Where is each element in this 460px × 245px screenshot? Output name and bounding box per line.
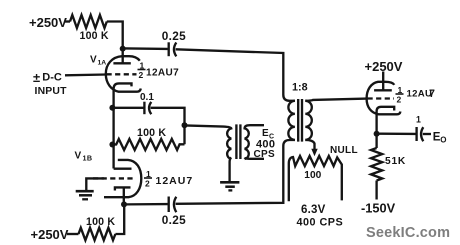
resistor R2 100K (feedback) [112,139,184,150]
svg-text:6.3V: 6.3V [301,204,326,216]
svg-text:0.1: 0.1 [140,92,154,103]
svg-text:D-C: D-C [42,72,62,84]
wire C1 to T1 primary top [176,49,295,101]
svg-text:-150V: -150V [361,201,396,216]
svg-text:100: 100 [304,170,321,181]
transformer T2 (EC excitation) left winding with leads [185,125,232,181]
tube V1A envelope [106,56,141,91]
svg-text:NULL: NULL [330,145,358,156]
svg-text:100 K: 100 K [86,216,115,228]
svg-text:SeekIC.com: SeekIC.com [366,225,450,241]
transformer T1 core [298,99,302,142]
wire R3 to V1B cathode node [115,204,124,234]
wire V1B grid to ground [86,178,104,190]
wiper arrow (null adjust) [311,149,317,156]
transformer T2 core [236,124,240,159]
wire V1A cathode node down to V1B plate [112,108,114,169]
wire C4 to EO terminal [423,133,431,135]
wire +250V to V2 plate [382,72,384,91]
transformer T2 right winding (source side) with leads [245,125,264,159]
svg-text:2: 2 [145,179,150,189]
tube V1B cathode [115,187,131,204]
tube V2 envelope [367,82,401,115]
junction dot: plate node of V1A [120,46,126,52]
input terminal ±D-C INPUT [33,70,67,97]
capacitor C4 1 (output coupling) [417,127,424,141]
potentiometer R4 100 (NULL) [289,156,342,201]
svg-text:100 K: 100 K [137,127,166,139]
tube V2 cathode [377,107,395,134]
svg-text:12AU7: 12AU7 [156,175,194,187]
capacitor C3 0.25 (coupling V1B to T1 primary bottom) [169,197,177,213]
capacitor C2 0.1 (feedback) [144,102,151,115]
resistor R1 100K (V1A plate load) [70,15,107,28]
ground (V1B grid) [76,191,94,199]
transformer T1 secondary winding [305,101,312,140]
svg-text:±: ± [33,70,40,85]
tube V1B grid (dashed) [93,177,135,179]
wire +250V to R3 [67,233,79,235]
svg-text:O: O [440,136,446,145]
svg-text:100 K: 100 K [80,30,109,42]
junction dot: EC tap node [182,122,188,128]
ground (T2 left winding) [220,182,239,190]
resistor R3 100K (V1B cathode load) [79,228,116,240]
label 1/2 12AU7 (V1A) [139,61,180,81]
svg-text:+250V: +250V [29,15,67,30]
svg-text:INPUT: INPUT [35,86,68,97]
label EC 400 CPS (excitation source) [254,128,276,160]
wire R1 to V1A plate node [107,22,123,49]
svg-text:1B: 1B [83,154,93,163]
svg-text:1:8: 1:8 [292,82,308,94]
svg-text:E: E [262,128,269,139]
wire C3 to T1 primary bottom [176,140,295,204]
transformer T1 1:8 primary winding [288,101,295,140]
wire plate node to C1 [123,47,168,50]
wire T1 secondary top to V2 grid [305,99,367,101]
label 1/2 12AU7 (V1B) [145,169,193,189]
wire output node to C4 [377,133,416,136]
tube V2 plate bar [374,89,392,91]
tube V1B plate bar [114,168,132,170]
tube V1A plate (lead + bar) [113,48,130,63]
svg-text:12AU7: 12AU7 [146,68,179,79]
svg-text:1A: 1A [98,60,107,67]
junction dot: 0.1 node (V1A cathode) [109,105,115,111]
wire node to C2 [112,107,143,109]
wire C2 to EC tap node and down to R2 [151,108,185,145]
tube V2 grid (dashed) [368,97,395,99]
junction dot: feedback node [109,142,115,148]
source 6.3V 400 CPS (heater excitation) [297,204,344,229]
resistor R5 51K [371,148,382,181]
svg-text:2: 2 [397,95,402,105]
junction dot: output node (V2 cathode) [374,131,380,137]
label 1/2 12AU7 (V2) [397,85,436,105]
svg-text:0.25: 0.25 [162,29,186,43]
wire R5 to -150V [375,181,377,200]
svg-text:7: 7 [429,88,435,100]
capacitor C1 0.25 (coupling V1A to T1 primary top) [169,42,177,56]
tube V1B envelope [104,160,141,197]
svg-text:0.25: 0.25 [162,213,186,227]
wire T1 secondary bottom to null wiper [305,140,314,150]
tube V1A cathode [114,83,132,107]
svg-text:400 CPS: 400 CPS [297,217,344,229]
wire output node to R5 [375,134,377,148]
wire cathode node to C3 [124,203,168,206]
wire input to V1A grid [65,73,107,76]
svg-text:+250V: +250V [31,227,69,242]
tube V1A grid (dashed) [107,73,137,75]
svg-text:CPS: CPS [254,149,275,160]
wire +250V to R1 [65,20,70,22]
svg-text:V: V [75,151,82,162]
svg-text:1: 1 [416,115,421,125]
svg-text:V: V [90,55,97,66]
svg-text:51K: 51K [385,156,406,167]
junction dot: V1B cathode node [121,201,127,207]
svg-text:2: 2 [139,70,144,80]
